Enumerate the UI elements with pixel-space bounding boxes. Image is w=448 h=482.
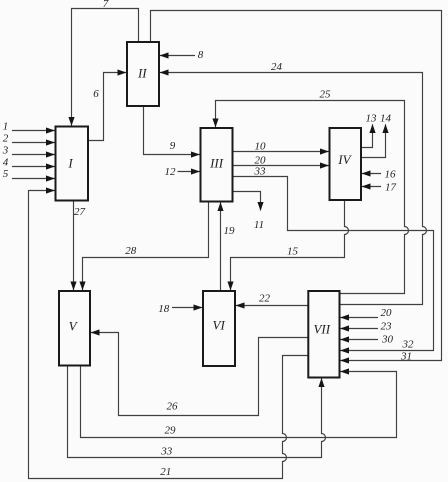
svg-text:31: 31 [400,351,412,363]
svg-text:23: 23 [381,320,393,332]
svg-text:17: 17 [385,182,397,194]
svg-text:30: 30 [381,333,394,345]
svg-text:15: 15 [287,246,299,258]
svg-text:IV: IV [337,152,352,167]
svg-text:3: 3 [2,145,9,157]
svg-text:18: 18 [158,303,170,315]
svg-text:28: 28 [125,245,137,257]
svg-text:33: 33 [160,446,173,458]
svg-text:33: 33 [254,165,267,177]
svg-text:2: 2 [3,133,9,145]
svg-text:25: 25 [320,89,332,101]
svg-text:19: 19 [224,225,236,237]
svg-text:VI: VI [213,318,226,333]
svg-text:5: 5 [3,168,9,180]
svg-text:7: 7 [103,0,109,10]
svg-text:29: 29 [165,425,177,437]
svg-text:6: 6 [93,88,99,100]
svg-text:24: 24 [271,61,283,73]
svg-text:22: 22 [259,293,271,305]
svg-text:12: 12 [165,166,177,178]
svg-text:32: 32 [402,339,415,351]
svg-text:11: 11 [254,219,264,231]
svg-text:20: 20 [381,307,393,319]
svg-text:I: I [67,156,73,171]
svg-text:8: 8 [198,49,204,61]
svg-text:21: 21 [160,466,171,478]
svg-text:II: II [137,66,147,81]
svg-text:1: 1 [3,121,9,133]
svg-text:16: 16 [385,169,397,181]
svg-text:9: 9 [170,140,176,152]
svg-text:4: 4 [3,157,9,169]
svg-text:13: 13 [366,113,378,125]
svg-text:VII: VII [313,322,330,337]
svg-text:10: 10 [255,140,267,152]
svg-text:26: 26 [167,400,179,412]
svg-text:III: III [209,156,224,171]
svg-text:27: 27 [74,206,86,218]
svg-text:14: 14 [380,113,392,125]
